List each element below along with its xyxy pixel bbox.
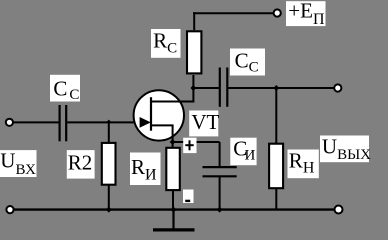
svg-text:R2: R2 <box>68 151 93 175</box>
svg-text:VT: VT <box>191 110 219 134</box>
